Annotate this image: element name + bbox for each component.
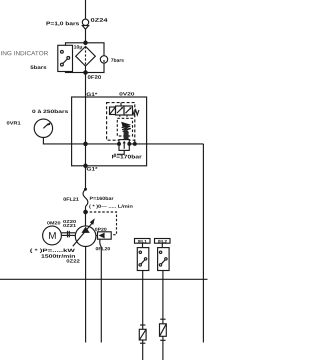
pump compensator link: [96, 235, 98, 237]
label 7bars: [111, 58, 124, 62]
wire LS dashed line: [86, 212, 117, 235]
label 0Z20: [63, 220, 76, 223]
switch fixed contact: [61, 50, 64, 53]
strainer 2 box: [160, 324, 167, 337]
relief valve main stage box: [119, 140, 129, 151]
compensator box: [98, 232, 112, 239]
label 0 à 250bars: [32, 109, 68, 113]
wire gauge stub: [43, 138, 85, 144]
label 0P20: [95, 228, 107, 231]
label 10μ: [74, 45, 82, 49]
wire node to filter: [85, 29, 87, 46]
pump triangle: [81, 227, 89, 233]
label 0V20: [119, 92, 134, 95]
label 0Z24: [91, 18, 108, 22]
wire filter to power unit box: [85, 66, 87, 97]
label 0IL2: [158, 240, 167, 243]
power unit enclosure box: [72, 97, 147, 166]
label M: [49, 232, 56, 239]
label ( * )0— ..... L/min: [89, 204, 132, 208]
label 0Z21: [63, 224, 76, 227]
filter 0F20 body box: [66, 43, 105, 73]
pump variable arrow: [73, 223, 93, 247]
wire gauge line to relief valve: [86, 143, 120, 145]
filter element dashed: [85, 46, 87, 66]
label P=160bar: [90, 197, 114, 200]
label 0FL21: [63, 197, 78, 200]
wire relief drain: [117, 150, 124, 154]
level switch 1 box: [137, 248, 149, 271]
label G1*: [87, 167, 98, 171]
wire return line down right side: [202, 144, 204, 343]
motor 0M20 circle: [43, 226, 62, 245]
clogging indicator switch box: [58, 45, 73, 71]
level switch 0IL2 label box: [155, 239, 171, 244]
wire suction strainer 2 line: [162, 279, 164, 360]
wire drain to tank: [100, 251, 102, 343]
wire switch stubs to tank line: [142, 271, 144, 280]
wire label stubs: [142, 243, 144, 247]
directional valve square 2: [124, 106, 133, 115]
label 0IL1: [138, 240, 147, 243]
wire hose to pump: [85, 206, 87, 226]
wire main line inside box: [85, 97, 87, 189]
label 0Z22: [67, 259, 80, 262]
pressure gauge 0VR1: [34, 119, 52, 137]
junction filter top: [84, 41, 87, 44]
junction hose top: [84, 188, 87, 191]
valve spring: [133, 110, 139, 115]
wire suction strainer 1 line: [142, 279, 144, 360]
hose 0FL21 wave: [83, 189, 88, 206]
switch lever: [63, 59, 68, 64]
label 1500tr/min: [41, 254, 75, 258]
wire valve port stub: [120, 103, 122, 106]
valve 0V20 subplate dashed box: [107, 103, 135, 141]
pilot dashed box: [117, 118, 132, 136]
node 0Z24 test point: [82, 19, 88, 25]
label 0VR1: [7, 121, 21, 124]
label P=170bar: [112, 155, 142, 159]
relief valve poppet arrow: [124, 132, 129, 140]
wire main pressure line top: [85, 0, 87, 19]
wire pump suction: [85, 247, 87, 343]
wire relief out to right: [129, 143, 203, 145]
bypass valve circle: [100, 56, 107, 63]
junction gauge tee: [84, 142, 87, 145]
junction LS tee: [84, 210, 87, 213]
directional valve square 1: [116, 106, 125, 115]
label 0FL20: [96, 247, 110, 250]
junction dashed drop: [133, 143, 136, 146]
label 0F20: [88, 75, 101, 79]
shaft coupling lines: [61, 232, 75, 234]
filter diamond: [76, 46, 96, 66]
label ING INDICATOR: [1, 51, 48, 55]
junction relief right: [128, 143, 131, 146]
level switch 0IL1 label box: [135, 239, 151, 244]
pilot spring: [122, 126, 131, 131]
pilot relief arrow: [121, 122, 131, 128]
label G1*: [87, 93, 98, 97]
hose 0FL20: [100, 239, 102, 251]
solenoid box: [110, 107, 116, 115]
label 0M20: [47, 221, 60, 224]
junction box bottom: [84, 164, 87, 167]
valve port dashed stubs: [119, 115, 121, 118]
junction filter bottom: [84, 71, 87, 74]
tank top line: [0, 278, 208, 280]
junction relief left: [118, 143, 121, 146]
strainer 1 box: [139, 329, 146, 340]
label ( * )P=.....kW: [30, 249, 75, 253]
level switch 2 box: [158, 248, 170, 271]
pump 0P20 circle: [75, 226, 96, 247]
label 5bars: [30, 65, 46, 69]
label P=1,0 bars: [46, 21, 79, 26]
